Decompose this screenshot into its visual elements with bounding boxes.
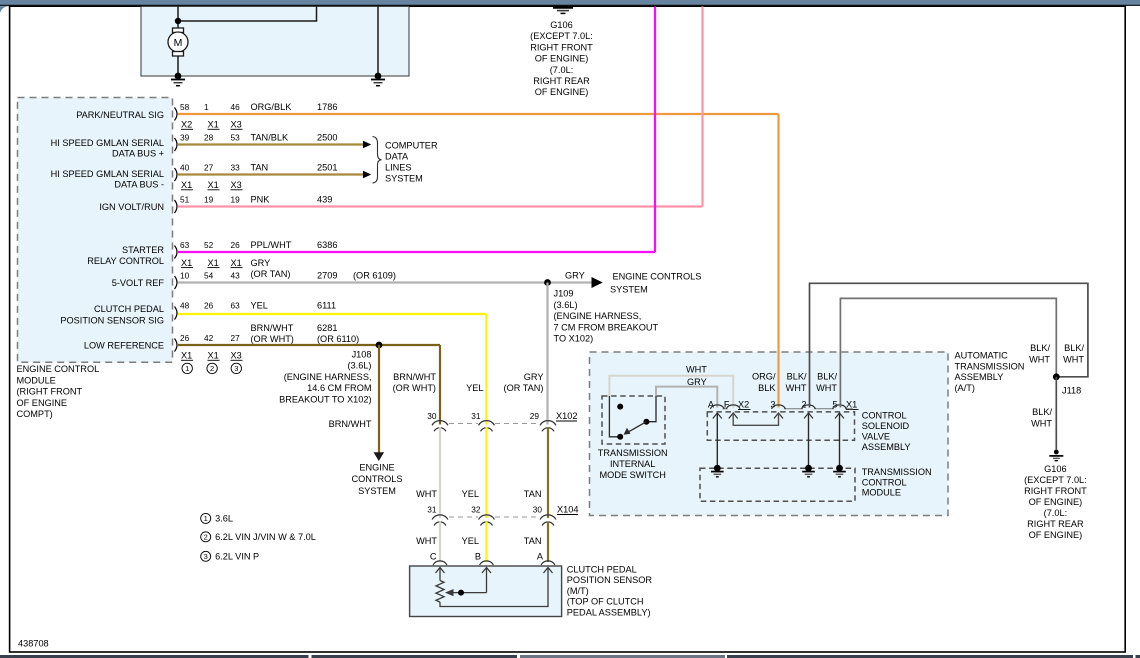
svg-text:BREAKOUT TO X102): BREAKOUT TO X102) [279,394,371,404]
label transmission internal mode switch [598,448,668,480]
svg-text:X1: X1 [208,351,219,361]
svg-text:BLK/: BLK/ [787,372,807,382]
svg-text:SYSTEM: SYSTEM [610,284,648,294]
svg-text:LOW REFERENCE: LOW REFERENCE [84,340,164,350]
svg-text:6.2L VIN J/VIN W & 7.0L: 6.2L VIN J/VIN W & 7.0L [215,532,316,542]
wire right drop in motor box [377,6,379,76]
pin GMLAN+ connector [175,138,178,151]
svg-text:J108: J108 [352,350,372,360]
svg-text:439: 439 [317,195,332,205]
label control solenoid valve assembly [862,411,911,453]
ground right of motor [371,80,385,86]
wire motor feed from top [177,6,317,29]
solenoid A arrow [713,413,722,419]
solenoid F arrow [729,413,738,419]
wire YEL 6111 clutch pedal position sensor sig [178,314,486,425]
svg-text:6.2L VIN P: 6.2L VIN P [215,551,259,561]
label ORG/BLK over pin3 [752,372,776,394]
wire GRY mode switch to A [656,387,717,408]
svg-text:58: 58 [180,102,190,112]
connector X104 pin 32 arcs [479,515,495,526]
svg-text:3: 3 [234,364,238,373]
svg-text:RIGHT FRONT: RIGHT FRONT [530,42,593,52]
svg-text:(RIGHT FRONT: (RIGHT FRONT [17,387,83,397]
wire ORG/BLK inside A/T box [777,351,779,408]
svg-text:WHT: WHT [1031,418,1052,428]
wire sensor internal resistor to A [440,568,548,607]
svg-text:BRN/WHT: BRN/WHT [251,323,294,333]
pin IGN VOLT/RUN connector [175,200,178,213]
svg-text:27: 27 [231,333,241,343]
node J108 junction [376,342,383,349]
wire sensor internal C to resistor [439,568,441,581]
svg-text:ENGINE: ENGINE [359,463,394,473]
label J109 splice [554,289,659,344]
svg-text:ORG/: ORG/ [752,372,776,382]
svg-text:GRY: GRY [687,377,707,387]
svg-text:1: 1 [185,364,189,373]
svg-text:63: 63 [231,301,241,311]
svg-text:BRN/WHT: BRN/WHT [329,419,372,429]
wire 5 to ground [839,413,841,468]
svg-text:A: A [537,552,544,562]
wire J118 to ground [1055,377,1057,450]
svg-text:51: 51 [180,195,190,205]
svg-text:WHT: WHT [786,383,807,393]
svg-text:G106: G106 [1044,464,1066,474]
svg-text:(ENGINE HARNESS,: (ENGINE HARNESS, [284,372,372,382]
svg-text:2: 2 [204,533,208,542]
svg-text:SYSTEM: SYSTEM [358,486,396,496]
solenoid 5 arrow [835,413,844,419]
svg-text:COMPUTER: COMPUTER [385,141,438,151]
svg-text:RIGHT REAR: RIGHT REAR [533,76,590,86]
label computer data lines system [385,141,438,184]
svg-text:BLK/: BLK/ [1030,343,1050,353]
svg-text:ENGINE CONTROLS: ENGINE CONTROLS [613,271,702,281]
wire WHT mode switch to F [609,376,733,408]
svg-text:WHT: WHT [416,536,437,546]
connector solenoid 5 arc [833,405,847,409]
svg-text:OF ENGINE): OF ENGINE) [1029,530,1083,540]
svg-text:WHT: WHT [686,365,707,375]
svg-text:43: 43 [231,270,241,280]
label G106 top [530,20,593,97]
svg-text:WHT: WHT [416,489,437,499]
svg-text:TAN: TAN [524,489,542,499]
connector X102 pin 30 arcs [432,421,448,432]
svg-text:TAN/BLK: TAN/BLK [251,133,289,143]
ground G106 bottom [1049,450,1063,461]
label park/neutral row [76,102,337,130]
brace computer data lines [373,137,382,184]
svg-text:(OR 6110): (OR 6110) [317,334,359,344]
motor M1 [168,28,188,56]
svg-text:MODE SWITCH: MODE SWITCH [600,470,666,480]
svg-text:31: 31 [471,411,481,421]
svg-text:GRY: GRY [251,258,271,268]
connector X104 row [427,505,578,518]
svg-text:(3.6L): (3.6L) [347,361,371,371]
svg-text:PARK/NEUTRAL SIG: PARK/NEUTRAL SIG [76,110,164,120]
ground TCM A [711,472,724,477]
svg-text:53: 53 [231,133,241,143]
node wiper junction [458,590,464,596]
svg-text:46: 46 [231,102,241,112]
node TCM ground A [714,465,721,472]
wire GRY 2709 5-volt ref [178,281,593,283]
label gmlan+ row [51,133,338,159]
label 5-volt ref row [112,270,396,288]
wire YEL X102 to X104 [485,427,487,518]
svg-text:MODULE: MODULE [862,488,901,498]
footnote marks 1 2 3 under low ref [182,363,242,373]
svg-text:CLUTCH PEDAL: CLUTCH PEDAL [94,304,164,314]
svg-text:2500: 2500 [317,133,337,143]
svg-text:X3: X3 [231,180,242,190]
svg-text:J118: J118 [1062,386,1081,396]
resistor clutch position [436,581,444,603]
svg-text:3.6L: 3.6L [215,514,233,524]
svg-text:31: 31 [427,505,437,515]
pin GMLAN- connector [175,168,178,181]
svg-text:STARTER: STARTER [122,245,164,255]
svg-text:40: 40 [180,163,190,173]
clutch pedal position sensor box [410,566,562,617]
label BLK/WHT over pin5 [816,372,837,394]
pin 5-VOLT REF connector [175,276,178,289]
svg-text:X104: X104 [557,505,578,515]
svg-text:33: 33 [231,163,241,173]
svg-text:(M/T): (M/T) [567,586,589,596]
svg-text:(OR 6109): (OR 6109) [353,270,396,280]
svg-text:SOLENOID: SOLENOID [862,421,910,431]
pin STARTER RELAY connector [175,246,178,259]
bottom status bar [0,655,1140,658]
svg-text:2: 2 [210,364,214,373]
wire WHT X104 to sensor [439,522,441,563]
ground under motor [171,80,185,86]
label engine controls system right [610,271,701,294]
label engine controls system bottom [351,463,402,497]
label ECM [17,364,100,419]
footnote legend [201,513,316,561]
svg-text:WHT: WHT [1029,354,1050,364]
node right ground junction [375,73,382,80]
svg-text:X3: X3 [231,351,242,361]
svg-text:X1: X1 [181,258,192,268]
connector solenoid 2 arc [802,405,816,409]
connector X104 pin 31 arcs [432,515,448,526]
svg-text:TO X102): TO X102) [554,334,594,344]
label automatic transmission assembly [955,351,1025,393]
svg-text:RELAY CONTROL: RELAY CONTROL [87,256,164,266]
svg-text:IGN VOLT/RUN: IGN VOLT/RUN [99,202,164,212]
svg-text:M: M [174,37,183,49]
wire ORG/BLK 1786 park/neutral sig [178,114,779,404]
arrow gmlan- [363,171,371,178]
svg-text:10: 10 [180,270,190,280]
wire sensor internal B wiper [452,568,487,593]
svg-text:RIGHT REAR: RIGHT REAR [1027,519,1084,529]
svg-text:GRY: GRY [524,372,544,382]
svg-text:X1: X1 [231,258,242,268]
svg-text:48: 48 [180,301,190,311]
svg-text:X1: X1 [208,258,219,268]
label transmission control module [862,467,932,498]
svg-text:6386: 6386 [317,240,337,250]
wire TAN X104 to sensor [547,522,549,563]
svg-text:ORG/BLK: ORG/BLK [251,102,293,112]
node TCM ground 5 [836,465,843,472]
node J109 junction [544,279,551,286]
svg-text:1: 1 [204,102,209,112]
solenoid 3 arrow [774,413,783,419]
connector X102 row [427,411,577,424]
label gmlan- row [51,163,338,191]
svg-text:1786: 1786 [317,102,337,112]
svg-text:29: 29 [530,411,540,421]
svg-text:POSITION SENSOR: POSITION SENSOR [567,575,653,585]
wire BRN/WHT branch to engine controls [378,345,380,454]
svg-text:7 CM FROM BREAKOUT: 7 CM FROM BREAKOUT [554,322,659,332]
ground TCM 5 [833,472,846,477]
svg-text:X102: X102 [556,411,577,421]
svg-text:(OR WHT): (OR WHT) [393,383,436,393]
pin A arrow [544,568,553,574]
ground G106 top [553,6,573,13]
svg-text:1: 1 [204,514,208,523]
svg-text:BLK/: BLK/ [817,372,837,382]
node TCM ground 2 [805,465,812,472]
label starter relay row [87,240,337,279]
label G106 bottom [1024,464,1087,540]
wire A to ground [716,413,718,468]
svg-text:27: 27 [204,163,214,173]
connector sensor pin C arc [433,561,447,565]
svg-text:TAN: TAN [251,163,269,173]
ground TCM 2 [802,472,815,477]
svg-text:B: B [475,552,481,562]
svg-text:OF ENGINE): OF ENGINE) [535,54,589,64]
svg-text:63: 63 [180,240,190,250]
svg-text:(TOP OF CLUTCH: (TOP OF CLUTCH [567,597,644,607]
svg-text:(3.6L): (3.6L) [554,300,578,310]
transmission internal mode switch box [602,396,665,444]
node switch contact open [617,404,623,410]
svg-text:26: 26 [204,301,214,311]
ECM box (engine control module) [18,98,173,363]
svg-text:OF ENGINE): OF ENGINE) [1029,497,1083,507]
wire GRY drop to X102 [546,283,548,425]
wire internal jumper F to 3 [733,413,778,425]
arrow engine controls (low ref) [374,452,385,461]
label wires above X102 [393,372,544,393]
wire YEL X104 to sensor [485,522,487,563]
pin PARK/NEUTRAL SIG connector [175,108,178,121]
svg-text:(EXCEPT 7.0L:: (EXCEPT 7.0L: [530,31,593,41]
svg-text:6281: 6281 [317,323,337,333]
svg-text:HI SPEED GMLAN SERIAL: HI SPEED GMLAN SERIAL [51,169,164,179]
switch internal wht path [609,396,620,437]
connector X104 pin 30 arcs [540,515,556,526]
svg-text:SYSTEM: SYSTEM [385,174,423,184]
arrow engine controls (5v ref) [592,277,603,288]
svg-text:(EXCEPT 7.0L:: (EXCEPT 7.0L: [1024,475,1087,485]
svg-text:32: 32 [471,505,481,515]
svg-text:YEL: YEL [462,489,479,499]
svg-text:BRN/WHT: BRN/WHT [393,372,436,382]
svg-text:438708: 438708 [18,639,49,649]
label solenoid connector pins [708,400,859,410]
svg-text:J109: J109 [554,289,574,299]
wire TAN/BLK 2500 gmlan + [178,143,364,145]
svg-text:3: 3 [204,552,208,561]
svg-text:DATA: DATA [385,152,409,162]
pin CLUTCH PEDAL SIG connector [175,307,178,320]
svg-text:HI SPEED GMLAN SERIAL: HI SPEED GMLAN SERIAL [51,138,164,148]
label low reference row [84,333,243,361]
svg-text:26: 26 [231,240,241,250]
svg-text:6111: 6111 [317,301,336,311]
svg-text:30: 30 [533,505,543,515]
wire TAN X102 to X104 [547,427,549,518]
automatic transmission assembly box [590,352,949,516]
svg-text:ASSEMBLY: ASSEMBLY [955,372,1004,382]
node switch common [643,419,649,425]
svg-text:PNK: PNK [251,195,271,205]
svg-text:G106: G106 [550,20,572,30]
svg-text:(7.0L:: (7.0L: [1044,508,1068,518]
svg-text:YEL: YEL [462,536,479,546]
svg-text:3: 3 [770,400,775,410]
svg-text:X3: X3 [231,120,242,130]
svg-text:X1: X1 [181,180,192,190]
label ign volt/run row [99,195,332,212]
label J108 splice [279,350,372,430]
connector X102 pin 31 arcs [479,421,495,432]
svg-text:26: 26 [180,333,190,343]
svg-text:TAN: TAN [524,536,542,546]
svg-text:MODULE: MODULE [17,375,56,385]
svg-text:AUTOMATIC: AUTOMATIC [955,351,1009,361]
arrow gmlan+ [363,141,371,148]
label clutch pedal position sensor [567,565,653,618]
pin LOW REFERENCE connector [175,339,178,352]
svg-text:GRY: GRY [565,270,585,280]
svg-text:YEL: YEL [466,383,483,393]
svg-text:ASSEMBLY: ASSEMBLY [862,442,911,452]
connector X102 pin 29 arcs [540,421,556,432]
label BLK/WHT below J118 [1031,407,1052,428]
svg-text:WHT: WHT [816,383,837,393]
switch blade with arrow [624,422,647,435]
svg-text:TRANSMISSION: TRANSMISSION [598,448,668,458]
svg-text:BLK: BLK [758,383,776,393]
wire PPL/WHT 6386 starter relay control [178,6,655,252]
svg-text:RIGHT FRONT: RIGHT FRONT [1024,486,1087,496]
svg-text:X1: X1 [181,351,192,361]
wire WHT X102 to X104 [439,427,441,518]
wire BRN/WHT 6281 low reference [178,345,440,425]
wire BLK/WHT pin2 to J118 outer [810,283,1088,407]
svg-text:TRANSMISSION: TRANSMISSION [955,361,1025,371]
solenoid 2 arrow [804,413,813,419]
control solenoid valve assembly box [707,412,854,440]
connector sensor pin A arc [541,561,555,565]
svg-text:TRANSMISSION: TRANSMISSION [862,467,932,477]
svg-text:X1: X1 [208,120,219,130]
connector line stubs X1 [723,408,854,410]
label clutch pedal row [60,301,359,345]
svg-text:X1: X1 [846,400,857,410]
connector sensor pin B arc [480,561,494,565]
svg-text:(7.0L:: (7.0L: [550,65,574,75]
node J118 junction [1053,373,1060,380]
svg-text:X2: X2 [181,120,192,130]
arrow wiper [445,589,454,596]
svg-text:PEDAL ASSEMBLY): PEDAL ASSEMBLY) [567,607,651,617]
svg-text:2709: 2709 [317,270,337,280]
svg-text:19: 19 [231,195,241,205]
node motor ground junction [175,73,182,80]
svg-text:CONTROL: CONTROL [862,411,907,421]
svg-text:DATA BUS -: DATA BUS - [114,180,164,190]
starter motor box [141,6,409,76]
svg-text:X1: X1 [208,180,219,190]
svg-text:52: 52 [204,240,214,250]
connector solenoid 3 arc [772,405,786,409]
wire TAN 2501 gmlan - [178,173,364,175]
svg-text:POSITION SENSOR SIG: POSITION SENSOR SIG [60,316,164,326]
svg-text:(OR TAN): (OR TAN) [504,383,544,393]
svg-text:BLK/: BLK/ [1032,407,1052,417]
svg-text:PPL/WHT: PPL/WHT [251,240,292,250]
svg-text:OF ENGINE: OF ENGINE [17,398,68,408]
svg-text:OF ENGINE): OF ENGINE) [535,87,589,97]
pin B arrow [482,568,491,574]
wire motor to ground [177,56,179,76]
svg-text:(OR TAN): (OR TAN) [251,269,291,279]
top header bar [0,0,1140,13]
wire BLK/WHT pin5 to J118 inner [840,298,1056,407]
svg-text:COMPT): COMPT) [17,409,53,419]
transmission control module box [700,468,855,501]
svg-text:30: 30 [427,411,437,421]
svg-text:14.6 CM FROM: 14.6 CM FROM [307,383,371,393]
svg-text:DATA BUS +: DATA BUS + [112,149,164,159]
wire PNK 439 ign volt/run [178,6,703,206]
label BLK/WHT right pair [1029,343,1084,364]
connector solenoid A arc [710,405,724,409]
svg-text:CLUTCH PEDAL: CLUTCH PEDAL [567,565,637,575]
svg-text:YEL: YEL [251,301,268,311]
svg-text:2501: 2501 [317,163,337,173]
svg-text:39: 39 [180,133,190,143]
node switch closed contact [617,434,623,440]
svg-text:28: 28 [204,133,214,143]
svg-text:LINES: LINES [385,163,412,173]
svg-text:(A/T): (A/T) [955,383,975,393]
pin C arrow [436,568,445,574]
svg-text:19: 19 [204,195,214,205]
label BLK/WHT over pin2 [786,372,807,394]
connector solenoid F arc [726,405,740,409]
svg-text:ENGINE CONTROL: ENGINE CONTROL [17,364,100,374]
svg-text:54: 54 [204,270,214,280]
svg-text:BLK/: BLK/ [1064,343,1084,353]
svg-text:INTERNAL: INTERNAL [610,459,655,469]
